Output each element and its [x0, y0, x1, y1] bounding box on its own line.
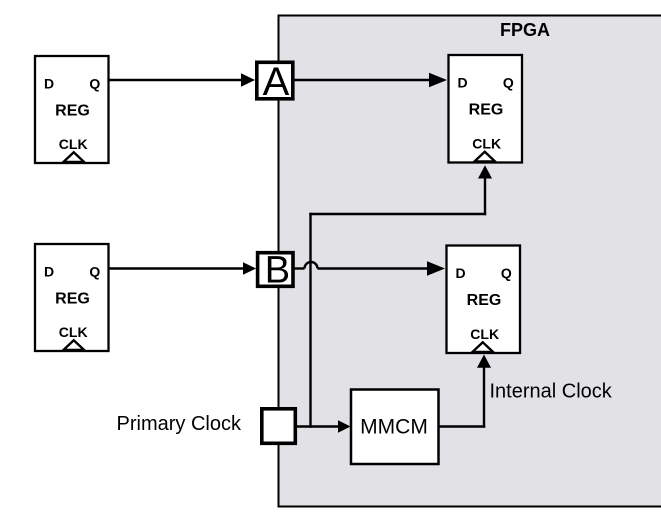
pad A (FPGA input pin A)	[257, 60, 293, 104]
svg-text:D: D	[44, 263, 54, 279]
svg-text:REG: REG	[55, 291, 90, 308]
label Internal Clock	[490, 381, 613, 403]
wire REG U2 Q to pad B with arrowhead	[109, 262, 257, 274]
svg-text:REG: REG	[469, 102, 504, 119]
wire primary clock pad to MMCM with arrowhead	[297, 420, 351, 432]
pad A body	[257, 62, 293, 99]
FPGA label	[500, 20, 550, 40]
svg-text:A: A	[263, 60, 290, 104]
svg-text:CLK: CLK	[470, 326, 499, 342]
register U1 (external REG top-left)	[35, 56, 109, 163]
svg-text:Internal Clock: Internal Clock	[490, 381, 613, 403]
clock edge triangle	[473, 342, 494, 352]
register U3 (FPGA REG top-right)	[449, 55, 523, 163]
register U3 body	[449, 55, 523, 163]
svg-text:Primary Clock: Primary Clock	[117, 413, 242, 435]
wire MMCM output horizontal run	[439, 425, 485, 427]
svg-text:Q: Q	[89, 263, 100, 279]
svg-text:Q: Q	[89, 75, 100, 91]
svg-text:REG: REG	[467, 292, 502, 309]
wire clock riser from junction at primary clock feed	[309, 214, 311, 427]
register U2 body	[35, 244, 109, 351]
svg-text:D: D	[455, 265, 465, 281]
clock edge triangle	[64, 340, 85, 350]
wire clock drop to U3 CLK	[484, 179, 486, 214]
svg-text:D: D	[44, 75, 54, 91]
MMCM clock manager block	[351, 390, 439, 465]
register U1 body	[35, 56, 109, 163]
clock edge triangle	[475, 152, 496, 162]
svg-text:B: B	[265, 250, 290, 292]
wire segment hop to U4 D	[318, 267, 429, 269]
wire clock horizontal run to x=485	[311, 213, 486, 215]
pad B body	[258, 253, 293, 287]
clock edge triangle	[64, 152, 85, 162]
svg-text:Q: Q	[503, 75, 514, 91]
label Primary Clock	[117, 413, 242, 435]
register U4 (FPGA REG bottom-right)	[447, 246, 521, 354]
svg-text:CLK: CLK	[472, 136, 501, 152]
wire MMCM output to REG U4 clock with arrowhead (Internal Clock net)	[439, 355, 492, 427]
wire hop: pad B net crossing over clock net	[305, 262, 318, 269]
arrowhead into U4 D	[427, 261, 445, 275]
register U2 (external REG bottom-left)	[35, 244, 109, 351]
svg-text:CLK: CLK	[59, 136, 88, 152]
wire pad A to REG U3 D with arrowhead	[295, 73, 448, 87]
wire internal clock rise to U4 CLK	[483, 368, 485, 427]
wire segment pad B to hop	[295, 267, 305, 269]
svg-text:MMCM: MMCM	[360, 416, 428, 439]
pad B (FPGA input pin B)	[258, 250, 293, 292]
svg-text:FPGA: FPGA	[500, 20, 550, 40]
wire clock net: primary clock tee up and over to REG U3 clock	[311, 165, 493, 426]
svg-text:Q: Q	[501, 265, 512, 281]
arrowhead into U3 CLK	[478, 165, 492, 178]
wire REG U1 Q to pad A with arrowhead	[109, 73, 256, 87]
svg-text:CLK: CLK	[59, 324, 88, 340]
FPGA boundary region	[279, 16, 661, 507]
wire pad B to REG U4 D with arrowhead (segments around hop)	[295, 261, 446, 275]
svg-text:D: D	[457, 75, 467, 91]
svg-text:REG: REG	[55, 103, 90, 120]
register U4 body	[447, 246, 521, 354]
MMCM body	[351, 390, 439, 465]
pad primary clock (FPGA clock input pin)	[262, 409, 296, 444]
arrowhead into U4 CLK	[477, 355, 491, 368]
